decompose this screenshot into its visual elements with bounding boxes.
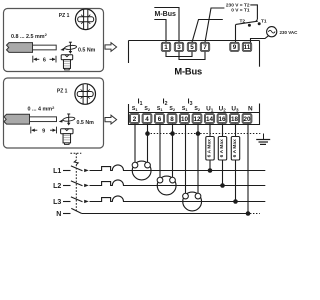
svg-text:S2: S2 <box>194 106 200 112</box>
svg-text:6 A Max: 6 A Max <box>232 139 238 157</box>
svg-text:M-Bus: M-Bus <box>174 66 202 76</box>
svg-text:PZ 1: PZ 1 <box>59 13 70 19</box>
svg-text:L1: L1 <box>53 168 61 175</box>
svg-text:2: 2 <box>133 116 137 123</box>
svg-text:T2: T2 <box>240 19 246 25</box>
svg-text:M-Bus: M-Bus <box>155 11 176 18</box>
svg-text:0 V = T1: 0 V = T1 <box>231 8 250 14</box>
svg-text:0 ... 4 mm2: 0 ... 4 mm2 <box>28 105 56 113</box>
svg-text:L2: L2 <box>53 183 61 190</box>
svg-text:U2: U2 <box>219 105 227 112</box>
svg-text:9: 9 <box>233 44 237 51</box>
svg-text:18: 18 <box>231 116 239 123</box>
svg-text:3: 3 <box>177 44 181 51</box>
svg-text:9: 9 <box>42 128 45 134</box>
svg-text:PZ 1: PZ 1 <box>57 88 68 94</box>
svg-text:5: 5 <box>190 44 194 51</box>
svg-text:4: 4 <box>145 116 149 123</box>
svg-text:6: 6 <box>43 57 46 63</box>
svg-text:16: 16 <box>218 116 226 123</box>
svg-text:7: 7 <box>203 44 207 51</box>
svg-text:0.8 ... 2.5 mm2: 0.8 ... 2.5 mm2 <box>11 32 48 40</box>
svg-text:0.5 Nm: 0.5 Nm <box>77 120 95 126</box>
svg-text:6 A Max: 6 A Max <box>207 139 213 157</box>
svg-text:10: 10 <box>181 116 189 123</box>
svg-text:11: 11 <box>244 44 251 51</box>
svg-text:U1: U1 <box>206 105 214 112</box>
svg-text:14: 14 <box>206 116 214 123</box>
svg-text:T1: T1 <box>261 19 267 25</box>
svg-text:0.5 Nm: 0.5 Nm <box>78 47 96 53</box>
svg-text:S1: S1 <box>132 106 138 112</box>
svg-text:N: N <box>248 105 253 112</box>
svg-text:S2: S2 <box>169 106 175 112</box>
svg-text:S1: S1 <box>157 106 163 112</box>
svg-text:6: 6 <box>158 116 162 123</box>
svg-text:8: 8 <box>170 116 174 123</box>
svg-text:U3: U3 <box>231 105 239 112</box>
svg-text:1: 1 <box>164 44 168 51</box>
svg-text:6 A Max: 6 A Max <box>219 139 225 157</box>
svg-text:12: 12 <box>193 116 201 123</box>
svg-text:S2: S2 <box>144 106 150 112</box>
svg-text:L3: L3 <box>53 199 61 206</box>
svg-text:20: 20 <box>243 116 251 123</box>
svg-text:N: N <box>56 211 61 218</box>
svg-text:S1: S1 <box>182 106 188 112</box>
svg-text:230 VAC: 230 VAC <box>280 30 299 35</box>
